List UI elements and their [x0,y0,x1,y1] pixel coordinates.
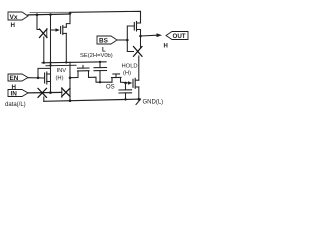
node output [139,35,142,38]
wire BS node to Q2 gate [127,26,134,40]
wire Q2 source to output node [140,30,142,37]
wire tap B vertical bus [50,15,52,93]
wire BS node down to S3 [127,40,133,52]
transistor Q6 [133,78,139,88]
node cap C2 top [124,82,127,85]
svg-text:HOLD: HOLD [122,64,138,70]
svg-text:EN: EN [10,75,19,82]
wire EN branch up [38,68,51,77]
transistor Q2 [134,22,140,32]
wire Q4 to OS wire [89,77,113,82]
wire EN to gate Q3 [28,77,44,79]
analog switch S1 [40,29,48,38]
wire S2 down to bottom rail [43,97,45,101]
node C1 bottom [99,81,101,83]
node bus B rail [49,64,51,66]
lower rail 1 [42,62,106,63]
transistor Q3 [45,72,51,84]
wire output arrow [141,34,157,37]
transistor Q5 [112,74,122,82]
bottom rail [44,99,141,101]
svg-text:data(/L): data(/L) [5,102,26,108]
input flag IN [8,90,28,98]
wire bus x70 [69,62,71,100]
capacitor C2 [119,83,132,100]
wire drop to switch S1 [37,15,40,30]
svg-text:OUT: OUT [173,33,186,40]
wire top rail [30,11,70,13]
wire Q1 drain to rail [66,13,70,27]
svg-text:BS: BS [99,38,109,45]
svg-text:OS: OS [106,85,115,91]
svg-text:H: H [164,44,168,50]
node hold bus bottom [138,98,141,101]
input flag EN [8,74,28,82]
output flag OUT [166,32,188,41]
wire output node down to S3 [140,36,142,47]
wire Q1 source to lower rail [65,33,67,62]
capacitor C1 [94,62,107,82]
node Q1 source rail [65,61,67,63]
node EN branch [37,77,40,80]
node C2 bottom [124,98,126,100]
node tap A [36,13,39,16]
svg-text:(H): (H) [123,71,131,77]
svg-text:IN: IN [11,91,18,98]
input flag BS [97,36,117,45]
wire OS to hold gate [121,81,129,84]
wire BS to node [117,39,127,41]
svg-text:Vx: Vx [10,14,18,21]
svg-text:SE(2H=V0b): SE(2H=V0b) [80,53,113,59]
wire arrow to gate of Q1 [51,29,57,31]
node x70 gate wire [69,77,72,80]
node cap C1 rail [99,61,101,63]
analog switch S2 [38,88,47,97]
svg-text:GND(L): GND(L) [143,99,164,105]
wire S3 to hold bus [138,56,140,80]
input flag Vx [8,12,28,21]
node S4 bottom [69,99,72,102]
analog switch S4 [62,88,70,98]
wire Vx horizontal [28,13,70,16]
node switch row [49,91,52,94]
svg-text:INV: INV [57,68,67,74]
svg-text:H: H [11,22,16,29]
wire Q6 source down [138,87,140,99]
wire arrow to gate of Q6 [128,81,132,85]
node junction Vx/rail [69,12,72,15]
node tap B [49,13,52,16]
node S1 out [43,62,45,64]
wire IN to switch row [28,91,62,94]
lower rail 2 [46,64,76,67]
transistor Q4 [70,65,89,77]
wire S1 output to lower rail [43,37,45,63]
ground tick [136,100,140,105]
node BS [126,39,129,42]
analog switch S3 [134,47,143,57]
node bus B rail1 [49,62,51,64]
svg-text:(H): (H) [56,76,64,82]
transistor Q1 [61,26,67,35]
